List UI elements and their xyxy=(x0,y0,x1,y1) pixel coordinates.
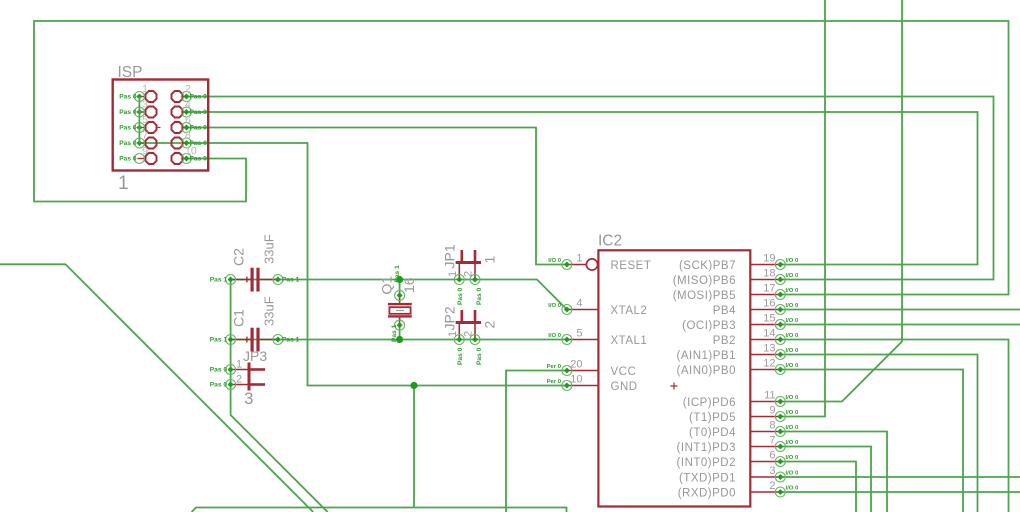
capacitor C2 plates xyxy=(251,268,260,292)
svg-text:(SCK)PB7: (SCK)PB7 xyxy=(679,260,736,272)
svg-text:1: 1 xyxy=(142,83,148,95)
JP3 pin line 1 xyxy=(231,369,248,371)
IC2 pin 11 pad xyxy=(775,397,785,407)
ISP pin circle left row 1 xyxy=(134,92,144,102)
wire long diagonal bus from left edge xyxy=(0,264,313,512)
Q1 pad top Pas 1 xyxy=(395,290,405,300)
JP1 pad 2 Pas 0 xyxy=(470,275,480,285)
ISP pad octagon right row 1 xyxy=(172,91,183,102)
wire vertical lane from top edge to IC2 pin 9 PD5 xyxy=(780,0,825,417)
IC2 pin 6 line xyxy=(750,461,780,463)
svg-text:(ICP)PD6: (ICP)PD6 xyxy=(683,397,736,409)
IC2 pin 3 line xyxy=(750,476,780,478)
svg-text:9: 9 xyxy=(142,145,148,157)
IC2 pin 10 pad xyxy=(562,381,572,391)
ISP right pin line row 4 xyxy=(183,142,186,144)
JP2 pin line 2 xyxy=(474,324,476,340)
IC2 pin 10 line xyxy=(567,385,599,387)
svg-text:8: 8 xyxy=(769,420,775,432)
wire IC2 pin 8 PD4 down to bottom edge xyxy=(780,432,887,512)
JP3 pad 2 Pas 0 xyxy=(226,380,236,390)
wire vertical lane from top edge to IC2 pin 11 PD6 xyxy=(780,0,902,402)
wire IC2 pin 14 PB2 down to bottom edge xyxy=(780,340,1008,512)
IC2 pin 18 line xyxy=(750,279,780,281)
IC2 pin 3 pad xyxy=(775,472,785,482)
svg-text:I/O 0: I/O 0 xyxy=(786,333,799,339)
JP2 pad 2 Pas 0 xyxy=(470,335,480,345)
ISP pad octagon left row 1 xyxy=(146,91,157,102)
svg-text:Per 0: Per 0 xyxy=(547,379,562,385)
svg-text:(OCI)PB3: (OCI)PB3 xyxy=(682,320,736,332)
svg-text:14: 14 xyxy=(763,328,775,340)
svg-text:16: 16 xyxy=(401,277,417,293)
svg-text:Pas 0: Pas 0 xyxy=(476,287,483,305)
svg-text:10: 10 xyxy=(185,145,197,157)
svg-text:Pas 0: Pas 0 xyxy=(210,367,228,374)
svg-text:7: 7 xyxy=(769,435,775,447)
svg-text:(MOSI)PB5: (MOSI)PB5 xyxy=(673,290,736,302)
wire net XTAL2 from C2 through Q1 and JP1 to IC2 pin 4 xyxy=(231,280,567,310)
C1 plus tick xyxy=(246,337,248,343)
ISP pin circle left row 2 xyxy=(134,107,144,117)
IC2 pin 2 line xyxy=(750,491,780,493)
ISP pad octagon left row 5 xyxy=(146,153,157,164)
IC2 pin 19 line xyxy=(750,264,780,266)
IC2 pin 4 line xyxy=(567,309,599,311)
wire IC2 pin 2 PD0 to right edge xyxy=(780,491,1020,493)
svg-text:33uF: 33uF xyxy=(262,234,277,264)
svg-text:XTAL2: XTAL2 xyxy=(611,305,648,317)
svg-text:Q1: Q1 xyxy=(379,276,395,295)
svg-text:2: 2 xyxy=(463,331,475,337)
svg-text:4: 4 xyxy=(185,99,191,111)
svg-text:(TXD)PD1: (TXD)PD1 xyxy=(679,472,736,484)
IC2 pin 5 line xyxy=(567,339,599,341)
ISP pin circle right row 5 xyxy=(181,154,191,164)
svg-text:8: 8 xyxy=(185,130,191,142)
svg-text:Pas 1: Pas 1 xyxy=(210,277,228,284)
svg-text:1: 1 xyxy=(236,359,242,371)
svg-text:I/O 0: I/O 0 xyxy=(786,471,799,477)
svg-text:XTAL1: XTAL1 xyxy=(611,335,648,347)
svg-text:I/O 0: I/O 0 xyxy=(786,288,799,294)
svg-text:3: 3 xyxy=(244,389,253,408)
ISP pad octagon right row 2 xyxy=(172,107,183,118)
IC2 pin 20 pad xyxy=(562,366,572,376)
ISP left pin line row 3 xyxy=(139,127,144,129)
IC2 pin 4 pad xyxy=(562,305,572,315)
svg-text:(INT0)PD2: (INT0)PD2 xyxy=(677,457,736,469)
svg-text:16: 16 xyxy=(763,298,775,310)
svg-text:2: 2 xyxy=(463,271,475,277)
IC2 pin 9 pad xyxy=(775,412,785,422)
junction GND net xyxy=(410,382,417,389)
IC2 pin 13 pad xyxy=(775,350,785,360)
wire IC2 pin 15 PB3 to right edge xyxy=(780,324,1020,326)
IC2 pin 1 pad xyxy=(562,260,572,270)
svg-text:Pas 0: Pas 0 xyxy=(119,140,137,147)
IC2 pin 14 line xyxy=(750,339,780,341)
svg-text:C1: C1 xyxy=(231,309,247,327)
ISP pad octagon left row 2 xyxy=(146,107,157,118)
svg-text:I/O 0: I/O 0 xyxy=(786,363,799,369)
IC2 pin 9 line xyxy=(750,416,780,418)
ISP right pin line row 5 xyxy=(183,158,186,160)
svg-text:20: 20 xyxy=(570,359,582,371)
IC2 pin 12 pad xyxy=(775,365,785,375)
svg-text:I/O 0: I/O 0 xyxy=(786,395,799,401)
svg-text:6: 6 xyxy=(185,114,191,126)
jumper JP2 body xyxy=(456,310,481,324)
wire net GND from ISP to IC2 pin 10 xyxy=(139,143,567,386)
svg-text:I/O 0: I/O 0 xyxy=(786,455,799,461)
wire ISP left column vertical xyxy=(138,97,140,144)
svg-text:3: 3 xyxy=(769,465,775,477)
svg-text:(T1)PD5: (T1)PD5 xyxy=(689,412,736,424)
svg-text:Pas 0: Pas 0 xyxy=(210,382,228,389)
C2 right pin line xyxy=(260,279,278,281)
svg-text:JP3: JP3 xyxy=(243,348,267,364)
svg-text:Pas 0: Pas 0 xyxy=(190,125,208,132)
svg-text:Pas 1: Pas 1 xyxy=(210,337,228,344)
svg-text:JP1: JP1 xyxy=(442,244,458,268)
Q1 pad bottom Pas 1 xyxy=(395,320,405,330)
IC2 pin 12 line xyxy=(750,369,780,371)
svg-text:19: 19 xyxy=(763,253,775,265)
svg-text:Pas 0: Pas 0 xyxy=(119,109,137,116)
capacitor C1 plates xyxy=(251,328,260,352)
ISP left pin line row 5 xyxy=(138,158,145,160)
IC2 pin 15 pad xyxy=(775,320,785,330)
IC2 pin 14 pad xyxy=(775,335,785,345)
wire bottom horizontal net xyxy=(192,508,567,512)
svg-text:Pas 0: Pas 0 xyxy=(119,125,137,132)
svg-text:3: 3 xyxy=(142,99,148,111)
junction Q1 bottom on XTAL1 net xyxy=(396,336,403,343)
svg-text:1: 1 xyxy=(481,256,497,264)
svg-text:1: 1 xyxy=(576,253,582,265)
svg-text:17: 17 xyxy=(763,283,775,295)
svg-text:15: 15 xyxy=(763,313,775,325)
ISP pad octagon right row 4 xyxy=(172,138,183,149)
IC2 pin 20 line xyxy=(567,370,599,372)
JP1 pin line 1 xyxy=(458,264,460,280)
wire net XTAL1 from C1 through Q1 and JP2 to IC2 pin 5 xyxy=(231,339,567,341)
svg-text:JP2: JP2 xyxy=(442,306,458,330)
ISP pin circle right row 3 xyxy=(181,123,191,133)
svg-text:2: 2 xyxy=(236,374,242,386)
wire IC2 pin 6 PD2 down to bottom edge xyxy=(780,462,856,512)
svg-text:PB4: PB4 xyxy=(713,305,736,317)
svg-text:10: 10 xyxy=(570,374,582,386)
svg-text:9: 9 xyxy=(769,405,775,417)
svg-text:I/O 0: I/O 0 xyxy=(786,318,799,324)
IC2 pin 8 line xyxy=(750,431,780,433)
svg-text:(T0)PD4: (T0)PD4 xyxy=(689,427,736,439)
svg-text:GND: GND xyxy=(611,381,638,393)
IC2 pin 1 bubble xyxy=(586,259,597,270)
svg-text:Per 0: Per 0 xyxy=(547,364,562,370)
IC2 pin 5 pad xyxy=(562,335,572,345)
IC2 origin cross xyxy=(671,383,678,390)
IC2 pin 11 line xyxy=(750,401,780,403)
ISP pin circle right row 1 xyxy=(181,92,191,102)
wire IC2 pin 7 PD3 down to bottom edge xyxy=(780,447,871,512)
C1 pad left Pas 1 xyxy=(226,335,236,345)
svg-text:Pas 1: Pas 1 xyxy=(391,324,398,342)
svg-text:18: 18 xyxy=(763,268,775,280)
wire left vertical C2-C1-JP3 with diagonal to bottom edge xyxy=(231,280,328,512)
ISP pin circle left row 5 xyxy=(134,154,144,164)
svg-text:I/O 0: I/O 0 xyxy=(548,333,561,339)
svg-text:PB2: PB2 xyxy=(713,335,736,347)
wire net MISO from ISP to IC2 pin 18 xyxy=(186,97,993,280)
svg-text:7: 7 xyxy=(142,130,148,142)
svg-text:Pas 1: Pas 1 xyxy=(282,337,300,344)
ISP right pin line row 1 xyxy=(183,96,186,98)
IC2 pin 13 line xyxy=(750,354,780,356)
IC2 pin 17 line xyxy=(750,294,780,296)
wire Q1 bottom lead xyxy=(399,325,401,339)
IC2 pin 16 pad xyxy=(775,305,785,315)
svg-text:Pas 1: Pas 1 xyxy=(282,277,300,284)
ISP left pin line row 4 xyxy=(139,142,144,144)
IC2 pin 19 pad xyxy=(775,260,785,270)
connector ISP 2x5 header box xyxy=(113,80,209,171)
svg-text:(INT1)PD3: (INT1)PD3 xyxy=(677,442,736,454)
ISP pad octagon right row 3 xyxy=(172,122,183,133)
IC2 pin 2 pad xyxy=(775,487,785,497)
wire IC2 pin 12 PB0 down to bottom edge xyxy=(780,370,963,512)
JP1 pin line 2 xyxy=(474,264,476,280)
svg-text:5: 5 xyxy=(576,328,582,340)
svg-text:I/O 0: I/O 0 xyxy=(786,425,799,431)
svg-text:(RXD)PD0: (RXD)PD0 xyxy=(678,487,736,499)
ISP pad octagon left row 3 xyxy=(146,122,157,133)
IC2 pin 15 line xyxy=(750,324,780,326)
svg-text:Pas 0: Pas 0 xyxy=(119,94,137,101)
svg-text:(MISO)PB6: (MISO)PB6 xyxy=(673,275,736,287)
jumper JP1 body xyxy=(456,250,481,264)
wire IC2 pin 16 PB4 to right edge xyxy=(780,309,1020,311)
ISP pin circle left row 4 xyxy=(134,138,144,148)
JP2 pin line 1 xyxy=(458,324,460,340)
wire IC2 pin 3 PD1 to right edge xyxy=(780,476,1020,478)
svg-text:I/O 0: I/O 0 xyxy=(786,273,799,279)
C2 pad left Pas 1 xyxy=(226,275,236,285)
svg-text:12: 12 xyxy=(763,358,775,370)
svg-text:RESET: RESET xyxy=(611,260,652,272)
wire net MOSI loop from ISP pin 9 around sheet to IC2 pin 17 xyxy=(34,21,1009,295)
svg-text:1: 1 xyxy=(447,331,459,337)
svg-text:ISP: ISP xyxy=(118,64,143,81)
svg-text:IC2: IC2 xyxy=(598,233,622,250)
svg-text:2: 2 xyxy=(769,480,775,492)
svg-text:11: 11 xyxy=(764,390,775,402)
svg-text:2: 2 xyxy=(185,83,191,95)
Q1 top pin line xyxy=(399,295,401,303)
svg-text:Pas 0: Pas 0 xyxy=(190,109,208,116)
svg-text:I/O 0: I/O 0 xyxy=(786,303,799,309)
C2 pad right Pas 1 xyxy=(273,275,283,285)
JP3 pin line 2 xyxy=(231,384,248,386)
junction Q1 top on XTAL2 net xyxy=(396,276,403,283)
svg-text:Pas 0: Pas 0 xyxy=(119,156,137,163)
svg-text:I/O 0: I/O 0 xyxy=(548,258,561,264)
C1 left pin line xyxy=(231,339,251,341)
svg-text:4: 4 xyxy=(576,298,582,310)
wire Q1 top lead xyxy=(399,280,401,296)
ISP right pin line row 2 xyxy=(183,111,186,113)
svg-text:C2: C2 xyxy=(231,248,247,266)
wire net RST from ISP to IC2 pin 1 RESET xyxy=(186,128,567,265)
svg-text:6: 6 xyxy=(769,450,775,462)
ISP left pin line row 2 xyxy=(139,111,144,113)
svg-text:5: 5 xyxy=(142,114,148,126)
IC2 pin 8 pad xyxy=(775,427,785,437)
svg-text:1: 1 xyxy=(118,173,129,194)
svg-text:Pas 0: Pas 0 xyxy=(457,347,464,365)
IC2 pin 18 pad xyxy=(775,275,785,285)
JP1 pad 1 Pas 0 xyxy=(454,275,464,285)
ISP pin circle left row 3 xyxy=(134,123,144,133)
svg-text:33uF: 33uF xyxy=(262,296,277,326)
ISP pad octagon left row 4 xyxy=(146,138,157,149)
svg-text:2: 2 xyxy=(481,321,497,329)
IC2 pin 6 pad xyxy=(775,457,785,467)
JP2 pad 1 Pas 0 xyxy=(454,335,464,345)
svg-text:I/O 0: I/O 0 xyxy=(786,486,799,492)
svg-text:I/O 0: I/O 0 xyxy=(786,348,799,354)
svg-text:(AIN1)PB1: (AIN1)PB1 xyxy=(677,350,736,362)
jumper JP3 body xyxy=(248,363,266,391)
svg-text:13: 13 xyxy=(763,343,775,355)
ISP pin circle right row 4 xyxy=(181,138,191,148)
IC U IC2 AT90S2313 body xyxy=(598,250,750,506)
crystal Q1 plates and body xyxy=(388,303,412,318)
wire GND stub down from junction xyxy=(413,386,415,508)
IC2 pin 1 line with inversion bubble xyxy=(567,264,586,266)
IC2 pin 16 line xyxy=(750,309,780,311)
C1 right pin line xyxy=(260,339,278,341)
wire net SCK from ISP to IC2 pin 19 xyxy=(186,112,977,265)
svg-text:VCC: VCC xyxy=(611,366,637,378)
Q1 bottom pin line xyxy=(399,318,401,326)
ISP left pin stub row 3 xyxy=(157,127,160,129)
svg-text:I/O 0: I/O 0 xyxy=(786,258,799,264)
svg-text:Pas 0: Pas 0 xyxy=(457,287,464,305)
ISP pad octagon right row 5 xyxy=(172,153,183,164)
ISP pin circle right row 2 xyxy=(181,107,191,117)
C1 pad right Pas 1 xyxy=(273,335,283,345)
JP3 pad 1 Pas 0 xyxy=(226,365,236,375)
svg-text:I/O 0: I/O 0 xyxy=(786,440,799,446)
IC2 pin 17 pad xyxy=(775,290,785,300)
IC2 pin 7 pad xyxy=(775,442,785,452)
wire IC2 pin 13 PB1 down to bottom edge xyxy=(780,355,977,512)
ISP left pin line row 1 xyxy=(139,96,144,98)
svg-text:Pas 0: Pas 0 xyxy=(190,94,208,101)
svg-text:I/O 0: I/O 0 xyxy=(786,410,799,416)
C2 plus tick xyxy=(246,277,248,283)
IC2 pin 7 line xyxy=(750,446,780,448)
C2 left pin line xyxy=(231,279,251,281)
svg-text:1: 1 xyxy=(447,271,459,277)
svg-text:(AIN0)PB0: (AIN0)PB0 xyxy=(677,365,736,377)
svg-text:Pas 0: Pas 0 xyxy=(476,347,483,365)
svg-text:I/O 0: I/O 0 xyxy=(548,303,561,309)
ISP right pin line row 3 xyxy=(183,127,186,129)
wire net VCC from IC2 pin 20 down off sheet xyxy=(506,371,567,512)
